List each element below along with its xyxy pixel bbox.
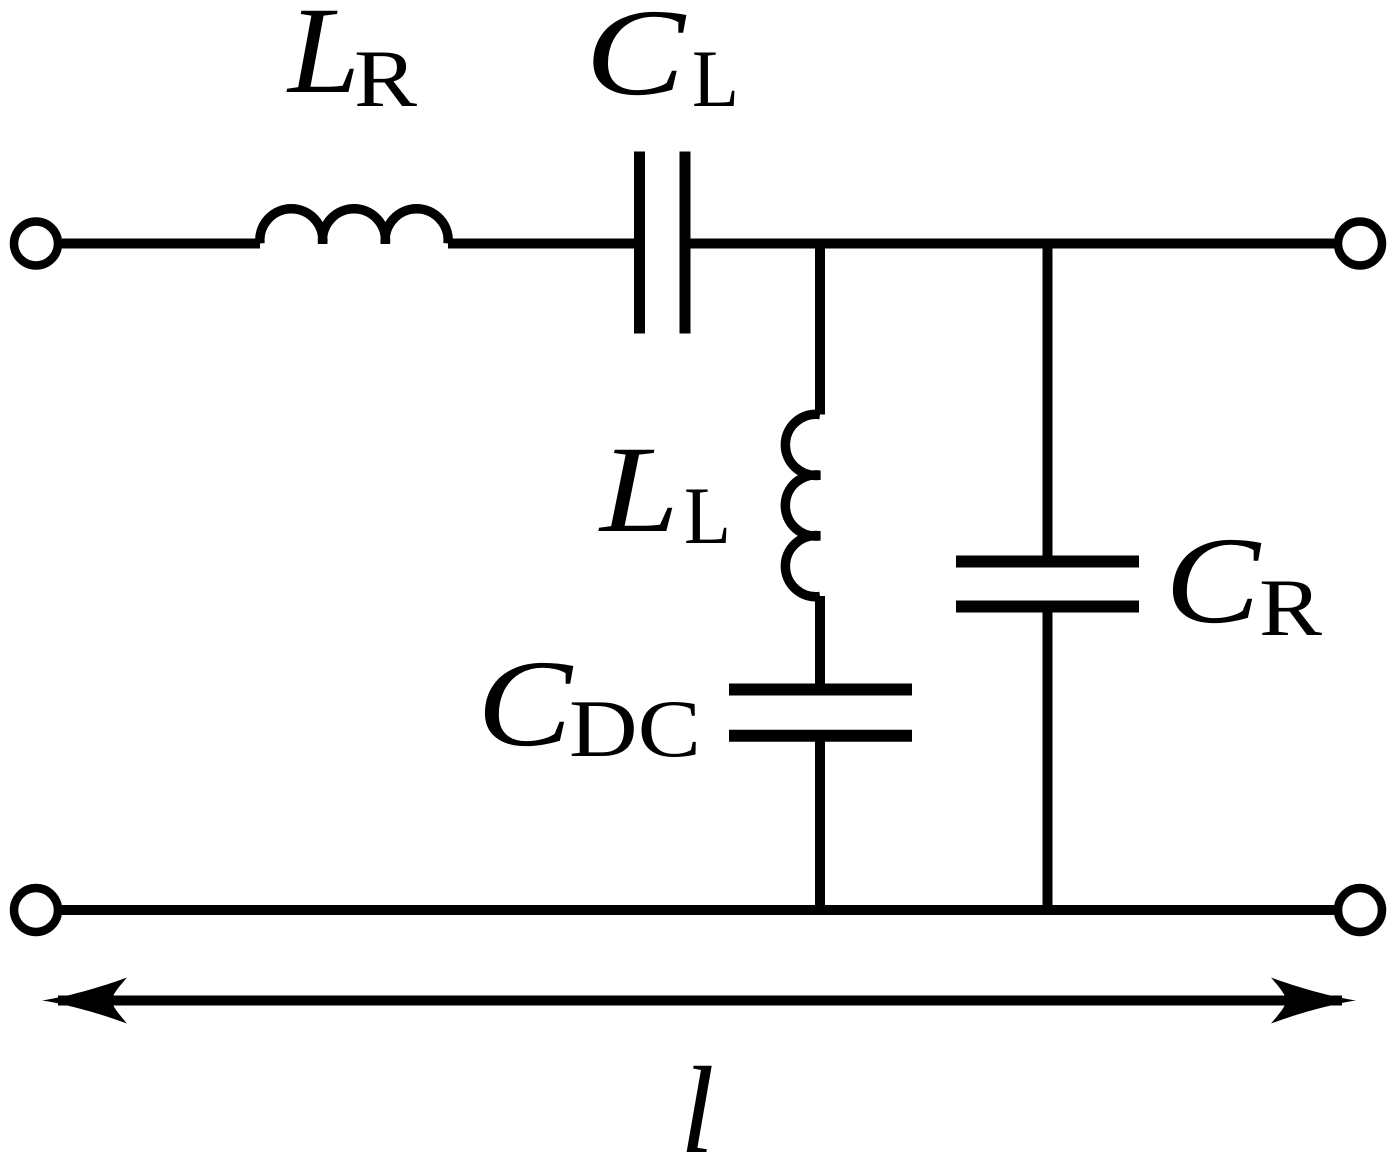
- capacitor C_L: [640, 152, 686, 334]
- terminal (top-right port): [1338, 222, 1382, 266]
- wire (bottom rail): [62, 905, 1334, 915]
- wire (top, C_L to top-right terminal, through both shunt nodes): [691, 239, 1335, 249]
- terminal (bottom-right port): [1338, 888, 1382, 932]
- wire (C_R down to bottom wire): [1043, 607, 1053, 915]
- wire (C_DC down to bottom wire): [815, 736, 825, 915]
- terminal (bottom-left port): [14, 888, 58, 932]
- label L_L: [598, 421, 731, 561]
- svg-text:L: L: [684, 470, 731, 561]
- label L_R: [286, 0, 417, 124]
- wire (dimension arrow shaft): [58, 996, 1342, 1006]
- svg-text:l: l: [680, 1042, 714, 1161]
- label C_DC: [477, 635, 701, 774]
- arrowhead (left, of length dimension): [42, 978, 127, 1024]
- svg-text:C: C: [585, 0, 687, 121]
- svg-text:C: C: [1165, 512, 1261, 649]
- inductor L_L: [785, 414, 820, 597]
- wire (L_L to C_DC): [815, 596, 825, 689]
- label l (line length): [680, 1042, 714, 1161]
- svg-text:L: L: [286, 0, 360, 119]
- wire (shunt branch: top wire down to L_L): [815, 239, 825, 415]
- svg-text:R: R: [1259, 562, 1322, 653]
- label C_R: [1165, 512, 1322, 653]
- terminal (top-left port): [14, 222, 58, 266]
- wire (top-left, terminal to L_R): [62, 239, 260, 249]
- svg-text:C: C: [477, 635, 573, 772]
- svg-text:L: L: [598, 421, 679, 558]
- svg-text:L: L: [692, 33, 739, 124]
- capacitor C_R: [956, 562, 1139, 607]
- arrowhead (right, of length dimension): [1271, 978, 1356, 1024]
- label C_L: [585, 0, 739, 124]
- svg-text:R: R: [354, 33, 417, 124]
- wire (shunt branch: top wire down to C_R): [1043, 239, 1053, 562]
- svg-text:DC: DC: [569, 683, 701, 774]
- capacitor C_DC: [729, 690, 912, 736]
- wire (top, L_R to C_L): [448, 239, 634, 249]
- inductor L_R: [260, 209, 448, 244]
